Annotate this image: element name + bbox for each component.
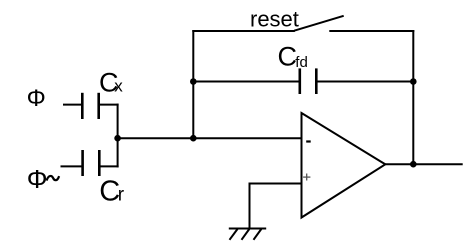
capacitor Cx [82,93,98,119]
svg-text:x: x [114,76,123,95]
node feedback tap [190,135,197,142]
wire Cfd right lead [316,81,413,83]
node summing junction [114,135,121,142]
capacitor Cfd [300,68,317,94]
node output [410,161,417,168]
switch reset (open arm) [294,16,344,31]
op-amp inverting input marker (-) [306,140,311,142]
wire Cx output jumper [99,104,119,106]
wire feedback left vertical [192,30,194,139]
wire non-inverting input [250,183,302,185]
wire junction vertical tie [117,104,119,168]
wire inverting input [118,137,302,139]
wire Cr output jumper [99,165,118,167]
svg-text:fd: fd [295,54,308,71]
svg-text:r: r [118,185,125,206]
node Cfd right junction [410,78,417,85]
wire Cfd left lead [193,81,299,83]
svg-text:Φ: Φ [27,85,46,112]
svg-text:C: C [278,42,298,72]
svg-text:reset: reset [250,7,299,32]
wire top rail left segment [192,30,294,32]
wire phi~ input lead [61,165,83,167]
node Cfd left junction [190,78,197,85]
ground [229,229,266,240]
wire right vertical (output to feedback) [412,30,414,164]
wire ground stub [249,183,251,229]
wire top rail right segment [329,30,414,32]
wire output [385,163,463,165]
wire phi input lead [63,104,82,106]
svg-text:Φ: Φ [27,164,48,194]
op-amp non-inverting input marker (+) [303,174,310,181]
capacitor Cr [83,150,100,176]
op-amp U1 [302,113,386,218]
